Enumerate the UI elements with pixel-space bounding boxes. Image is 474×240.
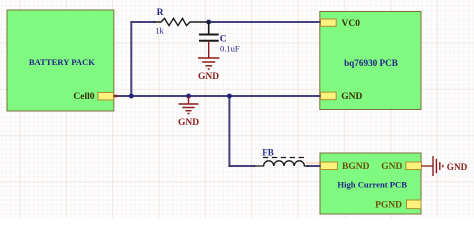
svg-text:High Current PCB: High Current PCB [337,180,407,190]
wire Cell0 to GND (net GND, horizontal) [114,95,321,97]
svg-text:BGND: BGND [342,162,370,172]
svg-text:bq76930 PCB: bq76930 PCB [344,58,398,68]
sheet entry VC0 [321,19,361,29]
capacitor C [199,22,240,53]
wire vertical drop to FB [228,95,230,167]
svg-text:VC0: VC0 [342,19,361,29]
svg-text:GND: GND [381,162,402,172]
junction dot at ground tap [186,94,191,99]
junction dot at riser [129,94,134,99]
svg-text:PGND: PGND [375,201,402,211]
svg-text:GND: GND [178,118,199,128]
sheet symbol High Current PCB [320,153,421,214]
wire FB left segment [228,165,255,167]
sheet entry GND (High Current PCB) [381,162,421,172]
junction dot at FB drop [227,94,232,99]
svg-text:FB: FB [262,148,274,158]
svg-text:R: R [157,8,164,18]
sheet symbol BATTERY PACK [7,10,114,111]
power port GND (right, rotated) [421,156,467,176]
resistor R [154,8,209,36]
sheet symbol bq76930 PCB [320,12,421,110]
svg-text:GND: GND [198,72,219,82]
wire vertical riser to resistor [130,22,132,97]
sheet entry Cell0 [73,92,113,102]
no-ERC marker at Cell0 pin [114,95,118,97]
svg-text:GND: GND [341,92,362,102]
ground under capacitor [198,41,219,82]
sheet entry PGND [375,200,421,211]
wire resistor to VC0 [209,21,321,23]
svg-text:BATTERY PACK: BATTERY PACK [29,57,95,67]
wire FB to BGND [307,165,321,167]
svg-text:Cell0: Cell0 [73,92,94,102]
wire top left segment to resistor [130,21,155,23]
svg-text:0.1uF: 0.1uF [220,43,240,53]
svg-text:GND: GND [447,162,468,172]
ground on GND net wire [178,96,199,128]
junction dot at capacitor tap [206,20,211,25]
ferrite bead FB [254,148,320,166]
sheet entry BGND [321,162,370,172]
svg-text:1k: 1k [155,26,164,36]
sheet entry GND (bq76930) [321,92,363,102]
